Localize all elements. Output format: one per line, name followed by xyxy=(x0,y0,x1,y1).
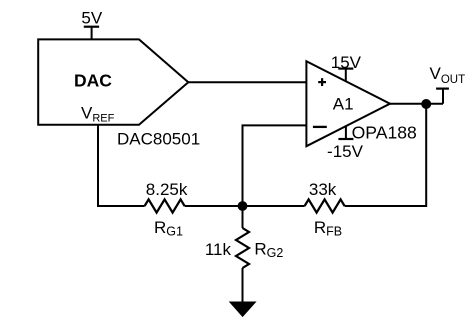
svg-text:5V: 5V xyxy=(81,9,102,28)
wire RG1 to node xyxy=(185,205,243,207)
minus sign xyxy=(313,126,327,128)
node feedback junction xyxy=(238,201,248,211)
svg-text:15V: 15V xyxy=(331,53,362,72)
plus sign xyxy=(318,81,326,83)
wire op-amp output xyxy=(390,103,443,105)
resistor RG1 xyxy=(145,199,185,212)
ground xyxy=(230,302,256,316)
wire RG2 to ground xyxy=(242,268,244,302)
svg-text:OPA188: OPA188 xyxy=(352,122,417,142)
svg-text:A1: A1 xyxy=(333,95,354,114)
wire RFB to output node (feedback) xyxy=(345,104,427,206)
resistor RFB xyxy=(305,199,345,212)
svg-text:DAC80501: DAC80501 xyxy=(117,130,200,149)
node output junction xyxy=(421,99,431,109)
wire node to RFB xyxy=(243,205,305,207)
wire VREF pin down and left bottom xyxy=(98,125,145,206)
svg-text:-15V: -15V xyxy=(327,142,364,161)
VOUT terminal xyxy=(442,89,444,104)
wire + input (DAC output to op-amp) xyxy=(188,81,306,83)
svg-text:8.25k: 8.25k xyxy=(146,180,188,199)
wire - input with feedback vertical xyxy=(243,125,307,206)
+15V supply xyxy=(345,69,347,81)
svg-text:DAC: DAC xyxy=(74,71,112,91)
svg-text:11k: 11k xyxy=(205,240,232,259)
DAC block DAC80501 xyxy=(38,39,188,124)
op-amp A1 xyxy=(306,61,390,146)
svg-text:33k: 33k xyxy=(309,180,337,199)
-15V supply xyxy=(345,126,347,139)
5V supply xyxy=(91,27,93,40)
wire node to RG2 xyxy=(242,206,244,228)
resistor RG2 xyxy=(236,228,249,268)
